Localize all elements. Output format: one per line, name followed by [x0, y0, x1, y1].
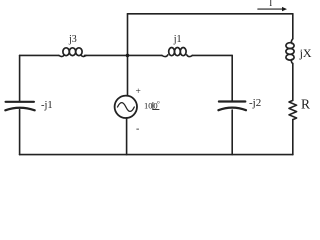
- svg-text:j3: j3: [68, 34, 77, 45]
- svg-text:+: +: [136, 87, 141, 97]
- wire bottom rail: [20, 154, 293, 156]
- inductor j3: [59, 48, 86, 57]
- svg-text:R: R: [301, 97, 310, 112]
- current arrow I: [258, 7, 287, 11]
- svg-text:-j2: -j2: [249, 97, 261, 109]
- junction node A dot: [126, 54, 130, 58]
- label source value 10 angle 0 deg: [144, 101, 160, 111]
- wire second rail left segment: [20, 54, 59, 56]
- wire left rail lower: [19, 110, 21, 155]
- svg-text:j1: j1: [173, 34, 182, 45]
- wire second rail right segment: [192, 54, 232, 56]
- svg-text:I: I: [269, 0, 272, 8]
- wire source branch lower: [126, 118, 128, 155]
- capacitor -j1: [5, 102, 34, 111]
- ac source V1: [115, 96, 137, 118]
- wire right rail middle: [292, 63, 294, 100]
- wire second rail middle segment: [85, 54, 163, 56]
- svg-text:-j1: -j1: [41, 100, 53, 111]
- wire right rail upper: [292, 14, 294, 39]
- svg-text:-: -: [136, 124, 139, 135]
- resistor R: [289, 100, 297, 119]
- svg-text:o: o: [157, 101, 160, 106]
- wire top rail: [128, 13, 293, 15]
- wire top-left riser from node A to top rail: [127, 14, 129, 56]
- capacitor -j2: [218, 102, 246, 111]
- wire left rail upper: [19, 55, 21, 101]
- wire -j2 branch upper: [231, 55, 233, 100]
- wire right rail lower: [292, 120, 294, 155]
- svg-text:jX: jX: [299, 46, 312, 60]
- inductor j1: [162, 48, 192, 57]
- wire -j2 branch lower: [231, 110, 233, 155]
- wire source branch upper: [127, 55, 129, 95]
- svg-text:10: 10: [144, 101, 153, 111]
- inductor jX: [286, 39, 294, 64]
